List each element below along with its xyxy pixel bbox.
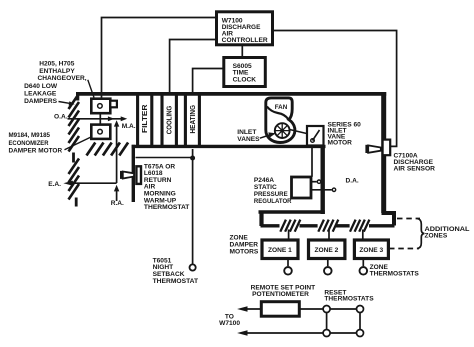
zone thermostat 3 bbox=[360, 259, 368, 275]
wire C to D bbox=[330, 332, 356, 334]
svg-text:E.A.: E.A. bbox=[48, 181, 61, 188]
cooling section bbox=[162, 95, 176, 146]
svg-text:AIR SENSOR: AIR SENSOR bbox=[394, 166, 436, 173]
svg-text:FAN: FAN bbox=[275, 104, 288, 111]
P246A terminal 2 bbox=[311, 188, 336, 191]
zone stub 3 bbox=[362, 230, 364, 241]
label remote set point potentiometer bbox=[251, 285, 316, 298]
duct break hatches group 1 bbox=[280, 220, 300, 232]
return duct left wall bbox=[132, 145, 135, 202]
svg-text:W7100: W7100 bbox=[219, 320, 240, 327]
remote set point potentiometer bbox=[261, 302, 299, 317]
T675A link wire bbox=[136, 157, 193, 159]
arrow to W7100 upper bbox=[237, 306, 261, 312]
svg-text:ZONE 3: ZONE 3 bbox=[359, 247, 383, 254]
arrow to W7100 lower bbox=[237, 330, 323, 336]
fan to vane motor link bbox=[290, 130, 308, 134]
duct right wall bbox=[381, 92, 386, 213]
leader to enthalpy changeover bbox=[88, 80, 94, 98]
label M9184 economizer bbox=[9, 132, 63, 155]
reset thermostat circle A bbox=[323, 306, 330, 313]
T675A thermostat head bbox=[136, 166, 141, 184]
label to W7100 bbox=[219, 314, 240, 327]
wire W7100 to cooling section bbox=[170, 40, 217, 94]
label C7100A bbox=[394, 152, 436, 172]
supply line segment 4 bbox=[369, 224, 395, 227]
svg-text:REGULATOR: REGULATOR bbox=[254, 198, 292, 205]
wire W7100 to S6005 bbox=[241, 45, 243, 57]
zone stub 1 bbox=[288, 230, 290, 241]
wire vane motor to P246A bbox=[311, 146, 313, 177]
label zone thermostats bbox=[370, 264, 420, 278]
svg-text:ZONE 1: ZONE 1 bbox=[268, 247, 292, 254]
duct right wall jog bbox=[382, 211, 395, 226]
svg-text:ZONE 2: ZONE 2 bbox=[315, 247, 339, 254]
exhaust air damper hatches bbox=[69, 159, 80, 200]
supply header top bbox=[259, 210, 325, 213]
supply line segment 1 bbox=[261, 224, 280, 227]
label P246A bbox=[254, 177, 292, 205]
svg-text:HEATING: HEATING bbox=[190, 104, 197, 133]
svg-text:THERMOSTAT: THERMOSTAT bbox=[144, 204, 190, 211]
duct break hatches group 3 bbox=[350, 220, 369, 232]
svg-text:D640 LOW: D640 LOW bbox=[24, 83, 58, 90]
supply line segment 3 bbox=[336, 224, 350, 227]
svg-text:CHANGEOVER,: CHANGEOVER, bbox=[38, 75, 87, 82]
P246A terminal 1 bbox=[311, 180, 321, 183]
O.A. flow arrow bbox=[68, 116, 128, 121]
duct top wall bbox=[76, 92, 386, 96]
reset thermostat circle C bbox=[323, 330, 330, 337]
svg-text:COOLING: COOLING bbox=[167, 105, 174, 134]
label reset thermostats bbox=[324, 289, 374, 302]
svg-text:ZONES: ZONES bbox=[425, 233, 448, 240]
svg-text:DAMPER: DAMPER bbox=[230, 242, 259, 249]
R.A. riser arrow bbox=[114, 120, 119, 201]
svg-text:VANES: VANES bbox=[237, 136, 260, 143]
svg-text:ECONOMIZER: ECONOMIZER bbox=[9, 140, 49, 147]
reset thermostat circle D bbox=[357, 330, 364, 337]
wire W7100 to C7100A sensor bbox=[273, 31, 397, 147]
T675A thermostat horn bbox=[120, 171, 134, 179]
fan wheel bbox=[275, 123, 290, 138]
duct floor bbox=[132, 145, 326, 148]
wire A to B bbox=[330, 308, 356, 310]
damper end dash bbox=[75, 198, 78, 207]
label D640 dampers bbox=[24, 83, 58, 105]
leader to economizer motor bbox=[65, 137, 92, 150]
label H205 H705 enthalpy changeover bbox=[38, 60, 87, 82]
leader arrow to dampers bbox=[59, 101, 75, 105]
supply line segment 2 bbox=[300, 224, 318, 227]
dashed additional zones bottom bbox=[389, 248, 419, 250]
zone damper motor 2 bbox=[309, 240, 345, 259]
svg-text:DAMPERS: DAMPERS bbox=[24, 98, 58, 105]
brace bbox=[418, 219, 425, 249]
svg-text:MOTOR: MOTOR bbox=[328, 139, 353, 146]
economizer damper motor M9184 bbox=[91, 125, 110, 139]
svg-text:DAMPER MOTOR: DAMPER MOTOR bbox=[9, 148, 63, 155]
inlet vane motor bbox=[307, 126, 324, 146]
svg-text:M9184, M9185: M9184, M9185 bbox=[9, 132, 51, 139]
zone stub 2 bbox=[328, 230, 330, 241]
wire pot to reset thermostats bbox=[299, 308, 323, 310]
svg-text:CLOCK: CLOCK bbox=[233, 76, 257, 83]
wire W7100 to enthalpy changeover bbox=[102, 18, 217, 99]
controller W7100 bbox=[217, 12, 273, 45]
filter section bbox=[138, 95, 152, 146]
zone thermostat 2 bbox=[324, 259, 332, 275]
static pressure regulator P246A bbox=[292, 177, 312, 198]
svg-text:MOTORS: MOTORS bbox=[230, 249, 259, 256]
label additional zones bbox=[425, 226, 470, 240]
svg-text:STATIC: STATIC bbox=[254, 184, 277, 191]
duct break hatches group 2 bbox=[318, 220, 338, 232]
svg-text:POTENTIOMETER: POTENTIOMETER bbox=[252, 291, 309, 298]
fan casing inner spiral bbox=[267, 107, 288, 120]
reset vertical link 1 bbox=[326, 313, 328, 330]
enthalpy changeover H205 bbox=[91, 99, 117, 114]
svg-text:THERMOSTAT: THERMOSTAT bbox=[153, 278, 199, 285]
zone damper motor 1 bbox=[262, 240, 298, 259]
mixed air hatches bbox=[87, 143, 129, 156]
label zone damper motors bbox=[230, 234, 259, 255]
reset vertical link 2 bbox=[359, 313, 361, 330]
reset thermostat circle B bbox=[357, 306, 364, 313]
svg-text:M.A.: M.A. bbox=[122, 123, 136, 130]
C7100A sensor head bbox=[383, 140, 391, 156]
damper blade pivot dash bbox=[72, 153, 75, 163]
shaft link bbox=[99, 112, 101, 126]
junction node bbox=[190, 156, 195, 161]
dashed additional zones top bbox=[397, 218, 420, 220]
supply header left end bbox=[259, 211, 263, 227]
heating section bbox=[185, 95, 199, 146]
supply chute left wall bbox=[321, 147, 325, 214]
svg-text:D.A.: D.A. bbox=[346, 178, 359, 185]
svg-text:O.A.: O.A. bbox=[54, 114, 68, 121]
svg-text:ZONE: ZONE bbox=[230, 234, 249, 241]
wire to T6051 bbox=[192, 149, 194, 264]
inlet vanes leader arrow bbox=[260, 132, 276, 138]
night setback thermostat T6051 bbox=[190, 264, 196, 270]
svg-text:R.A.: R.A. bbox=[111, 200, 124, 207]
label series 60 inlet vane motor bbox=[328, 121, 362, 146]
zone thermostat 1 bbox=[284, 259, 292, 275]
svg-text:H205, H705: H205, H705 bbox=[39, 60, 75, 67]
zone damper motor 3 bbox=[354, 240, 388, 259]
svg-text:THERMOSTATS: THERMOSTATS bbox=[370, 270, 420, 277]
label inlet vanes bbox=[237, 129, 260, 143]
svg-text:THERMOSTATS: THERMOSTATS bbox=[324, 296, 374, 303]
fan casing scroll bbox=[266, 98, 295, 143]
E.A. flow arrow bbox=[63, 181, 116, 186]
C7100A sensor horn bbox=[365, 145, 380, 153]
svg-text:CONTROLLER: CONTROLLER bbox=[222, 37, 268, 44]
label T675A bbox=[144, 163, 190, 211]
label T6051 bbox=[153, 257, 199, 284]
svg-text:LEAKAGE: LEAKAGE bbox=[24, 91, 57, 98]
svg-text:FILTER: FILTER bbox=[142, 105, 149, 134]
time clock S6005 bbox=[224, 58, 265, 87]
outside air damper hatches bbox=[69, 94, 80, 152]
svg-text:ENTHALPY: ENTHALPY bbox=[39, 68, 75, 75]
wire S6005 to heating section bbox=[193, 69, 224, 94]
duct inlet stub bbox=[76, 94, 79, 101]
svg-text:P246A: P246A bbox=[254, 177, 274, 184]
